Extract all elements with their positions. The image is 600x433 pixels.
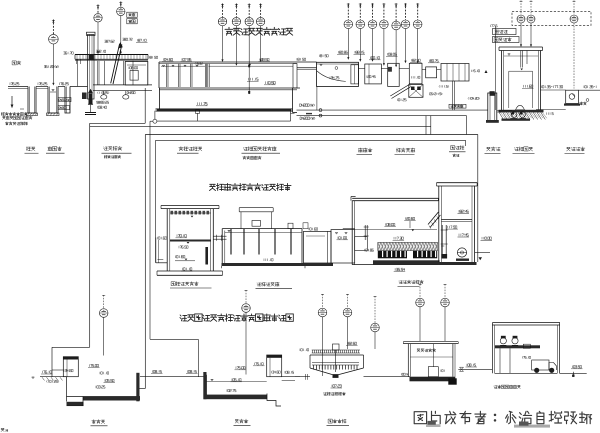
standpipe tag box [449, 104, 466, 108]
left main riser L1 [89, 123, 91, 347]
truck [532, 360, 549, 370]
T22 hanging baffles [230, 229, 232, 255]
filter bottom slab [352, 264, 470, 266]
dosing feed line [494, 26, 496, 110]
label under thickener [328, 419, 332, 423]
pipe basin to mixing tank [297, 66, 317, 68]
clear well inner structure [509, 70, 533, 72]
basin compartments [166, 64, 168, 87]
DN200 pipe tag boxes [58, 98, 71, 102]
truck tag [522, 356, 530, 358]
clear water basin below [159, 88, 161, 110]
instrument circle channel B [117, 7, 125, 15]
label lift pump house [104, 147, 108, 150]
instrument circle B3b [343, 308, 352, 317]
drop pipe L4 to side chamber [155, 140, 157, 262]
node junction circle [153, 119, 157, 123]
label suction well [451, 146, 455, 150]
booster pump box [566, 90, 579, 103]
column bottom pump dark [89, 94, 93, 103]
clear well inner pipes [520, 51, 522, 68]
thickener cone [310, 368, 332, 375]
mixing tank dim texts [319, 55, 328, 57]
filter water line [355, 228, 437, 230]
pipe T23 to filter [343, 228, 355, 230]
tank B2 outlet channel [282, 376, 300, 378]
flocculation sedimentation basin [159, 61, 317, 63]
long pipe y110 from basin outlet [297, 109, 488, 111]
T22 raised cover slab [239, 207, 273, 209]
instrument circle thickener [371, 323, 380, 332]
stem to booster pump box [573, 23, 575, 89]
clear well bottom slab [499, 110, 544, 113]
raw water inlet arrow [11, 96, 13, 107]
filter inlet pipe with flanges [364, 225, 366, 240]
instrument row above mixing tanks [344, 20, 353, 29]
dosing room tag boxes [490, 25, 497, 27]
wire to lift station [70, 86, 88, 88]
B4 bottom slab dark [410, 377, 456, 382]
title: clean water treatment process flow (fake CJK) [225, 27, 233, 35]
marker triangle left of wall [485, 70, 488, 73]
stems down to basin [222, 26, 224, 61]
thickener shaft [335, 350, 337, 372]
chute between filter and tower [428, 212, 438, 225]
B4 interior label [417, 349, 420, 352]
sludge pit box with cross [409, 85, 423, 98]
T22 water level [225, 232, 302, 234]
label clear water tank [487, 147, 491, 151]
instrument circle above tank B1 [99, 309, 108, 318]
suction bell at bottom [516, 105, 525, 110]
small contact box [441, 64, 469, 82]
backwash tower [437, 182, 478, 184]
pipe node to basin outlet step [157, 120, 291, 122]
screw lift column [88, 35, 95, 100]
B4 water line [410, 356, 453, 358]
tower bottom slab [438, 262, 477, 265]
inlet channel line [8, 86, 28, 88]
instrument row above basin [218, 17, 226, 25]
label coarse screen [26, 147, 30, 151]
label inclined tube settler [396, 148, 400, 152]
flocculation tank 2 [365, 64, 382, 84]
outlet works small structure [85, 112, 96, 114]
pipe out of tower [475, 252, 490, 254]
garage platform [495, 345, 540, 348]
backwash standpipe [441, 225, 443, 258]
filter media layer hatched [378, 242, 437, 250]
tower floor line [441, 219, 472, 221]
garage building outline [492, 322, 560, 324]
grit tank [125, 62, 148, 85]
T21 base slab [157, 270, 223, 272]
T21 dark pipe in right wall [205, 247, 208, 265]
instrument circle screen level [49, 34, 59, 44]
stems from dosing room to clear well [520, 23, 522, 46]
pipe B4 to garage [458, 368, 492, 370]
secondary pump platform [502, 119, 531, 121]
T21 side chamber [155, 238, 157, 263]
pipe thickener to sludge tank [364, 376, 411, 378]
drain valve under basin [196, 110, 200, 114]
reaction tank T21 top slab [161, 205, 219, 207]
label flocculation basin [179, 147, 183, 151]
B4 sump black square [448, 378, 456, 384]
thickener drive [333, 344, 340, 350]
contact box drain pipes [452, 81, 454, 110]
inlet drop pipe into B1 [52, 369, 63, 371]
sludge thickener railing [312, 349, 360, 351]
elevated channel [75, 54, 148, 56]
instrument circle D1 [517, 15, 525, 23]
tank B2 texts [232, 379, 241, 381]
lower pipe right of clearwell [536, 108, 566, 110]
pipe to thickener [295, 376, 310, 378]
filter inlet chamber tank [355, 237, 368, 251]
drain pipe from basin leftwall [144, 88, 146, 123]
clear well tank [499, 46, 543, 48]
garage cabinet box [523, 344, 530, 348]
inclined screw conveyor [111, 44, 120, 84]
note text left margin [3, 117, 6, 120]
sedimentation tank 4 [409, 63, 422, 84]
thickener rim and body [310, 354, 364, 356]
tank M1 drain tick [316, 86, 318, 110]
T21 walls [166, 209, 168, 271]
instrument circle sludge tank B [441, 298, 450, 307]
suction well standpipe [488, 93, 497, 122]
garage interior columns [499, 348, 501, 373]
tank B1 texts [105, 379, 114, 381]
tank B1 body [66, 377, 68, 402]
title: wastewater recovery and sludge treatment system (fake CJK) [180, 315, 187, 321]
T21 interior water band [170, 240, 211, 242]
instrument circle above tank B2 [242, 304, 251, 313]
small tank T23 [304, 231, 332, 263]
tower pump [457, 248, 466, 257]
pump symbol A [511, 112, 517, 118]
ground vee left [32, 376, 35, 378]
instrument circle D2 [527, 15, 535, 23]
pipe label DN200 upper [300, 104, 315, 107]
label under B2 [235, 420, 238, 424]
label secondary pump house [515, 147, 519, 150]
label regulating tank [48, 147, 52, 151]
coarse screen tank [28, 87, 36, 114]
long pipe y128 [90, 125, 431, 127]
B4 walls [407, 344, 409, 377]
caption underline artifacts [426, 424, 441, 427]
instrument circle D3 [570, 15, 578, 23]
T21 launder band under slab [170, 212, 211, 214]
hanging pipes from channel [96, 61, 98, 85]
tank B2 water line [207, 381, 267, 383]
label shower text [12, 61, 16, 65]
recovered water small tank B1 inlet [63, 357, 78, 377]
pump casings [101, 95, 107, 99]
label under T22 [257, 283, 261, 286]
tank B2 body [206, 375, 208, 395]
label reaction tank row [358, 148, 362, 152]
tank 5 box [426, 67, 437, 78]
long pipe y115.6 [297, 115, 467, 117]
pipe clear well to pump box [541, 89, 566, 91]
box R right edge [477, 135, 479, 263]
garage pumps [500, 338, 506, 344]
thickener mechanism band [312, 362, 359, 364]
drop pipes to box top [425, 116, 427, 135]
label power room [567, 147, 571, 151]
stems above enclosure [520, 1, 522, 15]
tank pedestal feet [26, 113, 38, 116]
basin dim texts [163, 58, 172, 60]
pipe out right [578, 89, 600, 91]
ground line left [40, 376, 67, 378]
filter building roof [352, 197, 438, 199]
title: reserved advanced treatment process flow (fake CJK) [210, 184, 216, 190]
pipe label DN200 lower [300, 117, 315, 120]
filter building left wall [351, 201, 353, 265]
wire channel [36, 86, 48, 88]
dashed control enclosure [512, 11, 591, 25]
riser L2 left [144, 135, 146, 389]
T22 stub columns [288, 223, 293, 228]
filter pump room gap [441, 245, 444, 247]
publisher caption [414, 412, 426, 424]
channel supports [77, 59, 79, 86]
second chamber T23b [331, 230, 355, 263]
inner pipe y140 [156, 139, 466, 141]
small tank 3 [65, 87, 70, 114]
label under garage [494, 386, 497, 389]
rapid mixing tank [317, 62, 359, 86]
B4 pump square [428, 367, 438, 377]
contact tank T22 [222, 228, 302, 230]
VFD tag boxes [127, 12, 137, 17]
pipe to contact tank [437, 69, 441, 71]
riser node line L3 [149, 121, 151, 339]
fine screen / regulating tank [48, 87, 58, 114]
label dry sludge disposal [399, 281, 403, 284]
instrument circle B3a [318, 308, 327, 317]
bottom left corner tiny text [1, 428, 4, 431]
thickener outlet label [323, 393, 326, 396]
label under T21 [171, 282, 175, 286]
ground line mid [140, 376, 204, 378]
media top label [394, 237, 403, 240]
sludge scraper diagonal [390, 85, 409, 97]
pipe standpipe up [497, 110, 512, 112]
label under B1 [92, 420, 96, 424]
sludge tank B4 top slab [403, 341, 458, 343]
instrument circle channel A [94, 14, 102, 22]
tank B1 right wall thick [136, 373, 139, 402]
tank 3 with hopper [388, 63, 400, 86]
pump room floor lines [93, 84, 152, 86]
T22 cover hatch box [252, 221, 261, 227]
basin water level and weir [209, 65, 294, 67]
instrument circle sludge tank A [416, 298, 425, 307]
label V-type filter [244, 147, 248, 150]
box A top edge y134.5 [145, 134, 478, 136]
wire channel 2 [58, 86, 65, 88]
tank B2 outlet tank [267, 355, 282, 377]
pipe garage out right [560, 372, 587, 374]
T21 outlet pipe to T22 [213, 235, 226, 237]
filter nozzle layer black [378, 251, 407, 258]
pump symbol B [520, 112, 526, 118]
